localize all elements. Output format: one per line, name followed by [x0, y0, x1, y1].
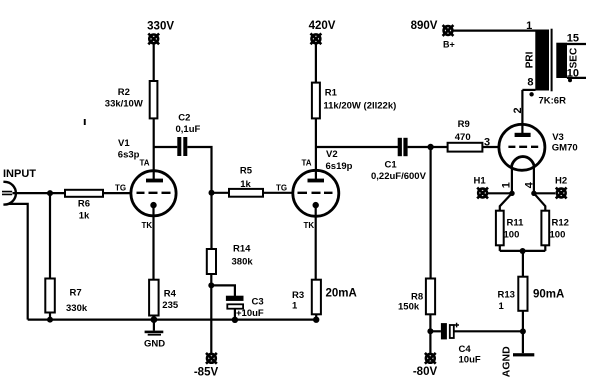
svg-text:GM70: GM70 — [552, 142, 578, 153]
svg-text:R9: R9 — [458, 119, 470, 130]
svg-text:AGND: AGND — [501, 346, 513, 377]
svg-text:PRI: PRI — [525, 51, 536, 68]
svg-text:H1: H1 — [474, 175, 487, 186]
svg-text:470: 470 — [455, 132, 471, 143]
svg-text:420V: 420V — [309, 20, 336, 32]
svg-text:TG: TG — [115, 183, 126, 192]
svg-text:R2: R2 — [118, 87, 130, 98]
svg-text:1k: 1k — [240, 179, 251, 190]
svg-text:6s19p: 6s19p — [326, 161, 353, 172]
svg-text:380k: 380k — [232, 257, 254, 268]
svg-text:8: 8 — [527, 76, 533, 88]
svg-text:H2: H2 — [555, 175, 567, 186]
svg-text:C2: C2 — [178, 112, 190, 123]
svg-text:3: 3 — [484, 137, 490, 149]
svg-text:0,1uF: 0,1uF — [176, 124, 201, 135]
svg-text:SEC: SEC — [569, 48, 580, 69]
svg-text:R4: R4 — [164, 289, 177, 300]
svg-text:TK: TK — [304, 221, 315, 230]
svg-text:R5: R5 — [240, 165, 253, 176]
svg-text:4: 4 — [523, 181, 535, 188]
svg-text:10uF: 10uF — [459, 354, 481, 365]
svg-text:11k/20W (2ll22k): 11k/20W (2ll22k) — [323, 100, 396, 111]
svg-text:TK: TK — [142, 221, 153, 230]
svg-text:-85V: -85V — [194, 367, 219, 379]
svg-text:100: 100 — [550, 230, 566, 241]
svg-text:7K:6R: 7K:6R — [539, 95, 567, 106]
svg-text:2: 2 — [512, 107, 524, 113]
svg-text:TG: TG — [276, 183, 287, 192]
svg-text:235: 235 — [162, 300, 179, 311]
svg-text:330k: 330k — [66, 303, 88, 314]
svg-text:330V: 330V — [147, 21, 174, 33]
svg-text:33k/10W: 33k/10W — [105, 98, 143, 109]
svg-text:1: 1 — [526, 20, 532, 32]
svg-text:C3: C3 — [252, 297, 264, 308]
svg-text:INPUT: INPUT — [3, 168, 36, 180]
svg-text:V2: V2 — [326, 149, 338, 160]
svg-text:V1: V1 — [118, 138, 130, 149]
svg-text:R14: R14 — [233, 244, 251, 255]
svg-text:1k: 1k — [79, 210, 90, 221]
svg-text:6s3p: 6s3p — [118, 150, 140, 161]
svg-text:TA: TA — [302, 158, 312, 167]
svg-text:0,22uF/600V: 0,22uF/600V — [371, 171, 427, 182]
svg-text:B+: B+ — [443, 40, 455, 50]
svg-text:100: 100 — [504, 230, 520, 241]
svg-text:+10uF: +10uF — [236, 308, 264, 319]
svg-text:GND: GND — [144, 338, 165, 349]
svg-text:90mA: 90mA — [533, 289, 564, 301]
svg-text:R12: R12 — [552, 217, 569, 228]
svg-text:R11: R11 — [507, 217, 525, 228]
svg-text:15: 15 — [567, 33, 579, 45]
svg-text:R1: R1 — [325, 87, 338, 98]
svg-text:-80V: -80V — [413, 366, 438, 378]
svg-text:1: 1 — [292, 301, 298, 312]
svg-text:R13: R13 — [498, 290, 515, 301]
svg-text:R6: R6 — [78, 198, 90, 209]
svg-text:20mA: 20mA — [326, 288, 357, 300]
svg-text:890V: 890V — [411, 20, 438, 32]
svg-text:1: 1 — [500, 182, 512, 188]
svg-text:TA: TA — [140, 158, 150, 167]
svg-text:1: 1 — [499, 301, 505, 312]
svg-text:R7: R7 — [70, 287, 82, 298]
svg-text:150k: 150k — [398, 302, 420, 313]
svg-text:C1: C1 — [385, 159, 398, 170]
